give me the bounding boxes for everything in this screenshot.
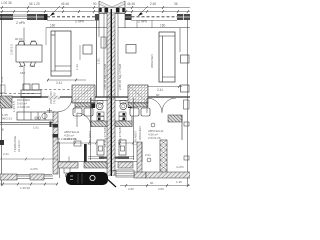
- middle horizontal wall: [0, 95, 190, 97]
- door arcs right unit: [147, 98, 162, 113]
- kitchen text block: [2, 98, 30, 121]
- svg-text:1.36 5.5: 1.36 5.5: [12, 101, 16, 112]
- svg-text:1.00 36: 1.00 36: [1, 1, 12, 5]
- svg-text:1.36 90: 1.36 90: [20, 186, 30, 190]
- svg-text:90: 90: [156, 93, 160, 97]
- svg-text:90: 90: [93, 2, 97, 6]
- svg-text:2.88 18 Stg 17,5/28: 2.88 18 Stg 17,5/28: [103, 63, 107, 90]
- left rotated text wall labels: [10, 44, 155, 162]
- svg-text:18 Stg 17,5/28: 18 Stg 17,5/28: [118, 127, 122, 147]
- bathroom left: [90, 98, 92, 127]
- upper dimension line 1: [0, 7, 98, 9]
- bathroom right (mirror): [131, 98, 133, 127]
- svg-text:36: 36: [174, 2, 178, 6]
- living room top lines: [47, 19, 99, 21]
- dimension line right sofa: [140, 86, 182, 88]
- svg-text:4 nPh: 4 nPh: [30, 167, 38, 171]
- svg-text:2 nPh: 2 nPh: [16, 21, 25, 25]
- svg-text:86/2.01: 86/2.01: [2, 117, 12, 121]
- central party wall: [103, 13, 105, 97]
- car: [66, 172, 108, 185]
- WM text: [49, 91, 57, 104]
- misc verticals: [23, 98, 25, 112]
- svg-text:46 46: 46 46: [127, 2, 135, 6]
- kitchen lower boxes left: [23, 84, 30, 90]
- center porch: [99, 1, 125, 10]
- sofa right: [159, 32, 175, 82]
- right text block: [148, 129, 164, 140]
- svg-text:1.23: 1.23: [75, 64, 79, 70]
- small square in hall: [83, 45, 92, 54]
- sinks right: [130, 108, 139, 116]
- svg-text:2.41: 2.41: [3, 152, 9, 156]
- radiator right of center top: [101, 37, 106, 48]
- svg-text:36 1.25: 36 1.25: [29, 2, 40, 6]
- svg-text:160: 160: [160, 24, 166, 28]
- svg-text:2.01: 2.01: [67, 156, 71, 162]
- svg-text:2.41: 2.41: [157, 88, 163, 92]
- svg-text:90: 90: [150, 181, 154, 185]
- svg-text:2.01: 2.01: [145, 153, 151, 157]
- svg-text:2.60: 2.60: [150, 2, 156, 6]
- bottom dimension lines: [0, 183, 58, 185]
- svg-text:21.69 m²: 21.69 m²: [17, 140, 21, 152]
- svg-text:4 nPh: 4 nPh: [176, 165, 184, 169]
- svg-text:2.01/2.26: 2.01/2.26: [148, 136, 161, 140]
- shaft boxes bottom center: [74, 141, 81, 146]
- svg-text:2.88 18 Stg 17,5/28: 2.88 18 Stg 17,5/28: [118, 63, 122, 90]
- bottom-left terrace wall: [0, 174, 52, 176]
- svg-text:90: 90: [1, 127, 5, 131]
- right hatched band: [168, 115, 182, 122]
- sinks left: [73, 108, 82, 116]
- svg-text:1.36: 1.36: [176, 180, 182, 184]
- dimension line under sofa: [47, 79, 86, 81]
- terrace wall line: [0, 122, 53, 124]
- svg-text:WOHNEN: WOHNEN: [150, 54, 154, 68]
- svg-text:90 90: 90 90: [15, 37, 23, 41]
- small table bottom-left room: [64, 164, 70, 173]
- svg-text:18 Stg 17,5/28: 18 Stg 17,5/28: [103, 127, 107, 147]
- stair text columns: [97, 58, 123, 147]
- left text block mid: [64, 130, 80, 141]
- top wall band right: [125, 14, 132, 20]
- wall strip left-mid: [53, 112, 58, 174]
- hall wall vertical: [96, 20, 98, 97]
- center bottom wall band: [58, 162, 78, 168]
- dining table + chairs left: [16, 45, 42, 62]
- svg-text:2.41: 2.41: [0, 76, 4, 82]
- svg-text:WOHNEN: WOHNEN: [138, 126, 142, 140]
- svg-text:2.43/2.30: 2.43/2.30: [17, 105, 30, 109]
- svg-text:1.01: 1.01: [97, 58, 101, 64]
- sofa left: [51, 31, 71, 76]
- horizontal line across lower rooms: [58, 161, 107, 163]
- dark wall stub: [84, 144, 87, 162]
- svg-text:90 2.01 88 2.01: 90 2.01 88 2.01: [57, 137, 77, 141]
- svg-text:3.38 5.5: 3.38 5.5: [10, 44, 14, 55]
- door arc left-mid: [77, 113, 91, 127]
- svg-text:46 46: 46 46: [61, 2, 69, 6]
- svg-text:2.60: 2.60: [158, 187, 164, 190]
- hatched block left edge: [0, 96, 12, 108]
- right edge marks: [184, 122, 189, 126]
- right edge line: [187, 20, 189, 186]
- svg-text:2.41: 2.41: [56, 81, 62, 85]
- dark hatch band below grid: [75, 103, 95, 107]
- left exterior wall line: [1, 14, 3, 186]
- top wall band left: [0, 14, 13, 20]
- dimension line 2 full width: [0, 11, 190, 13]
- bottom-right walls: [137, 142, 142, 176]
- svg-text:160: 160: [50, 24, 56, 28]
- shower grid left: [72, 85, 95, 103]
- svg-text:180: 180: [20, 71, 25, 75]
- top dimension text row: [1, 1, 178, 6]
- shower grid right: [128, 85, 148, 103]
- kitchen counter: [17, 112, 55, 120]
- svg-text:1.01: 1.01: [33, 126, 39, 130]
- leader arrow left: [50, 6, 60, 16]
- svg-text:2.60: 2.60: [128, 187, 134, 190]
